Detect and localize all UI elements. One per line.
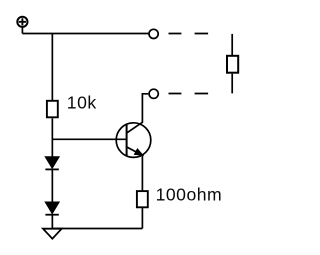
svg-text:100ohm: 100ohm xyxy=(156,185,223,205)
svg-text:10k: 10k xyxy=(67,93,97,113)
